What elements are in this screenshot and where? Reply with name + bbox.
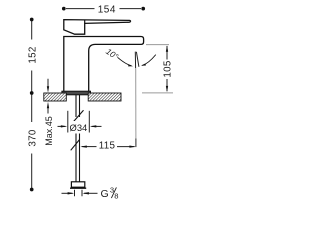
- dimension G3/8 (thread): [62, 190, 98, 197]
- svg-text:Max.45: Max.45: [44, 116, 54, 146]
- dark corner segment at 115 dimension: [135, 139, 137, 148]
- dimension O34 (body diameter): [58, 111, 102, 133]
- countertop right slab (hatched): [88, 93, 121, 101]
- svg-text:115: 115: [99, 141, 116, 152]
- handle rear edge: [84, 20, 86, 24]
- nut lip: [70, 187, 86, 189]
- dimension 115 (spout reach): [82, 146, 135, 148]
- dimension 105 (spout height): [166, 46, 168, 91]
- dimension 154 (top width): [66, 8, 141, 10]
- hose nut: [71, 182, 84, 187]
- angle arc right with arrowhead: [142, 55, 156, 66]
- gray extension line: spout bottom: [146, 44, 169, 46]
- svg-text:8: 8: [114, 192, 118, 200]
- break slash upper: [73, 110, 84, 122]
- svg-text:152: 152: [27, 46, 38, 63]
- break slash lower: [71, 140, 80, 151]
- dimension Max.45 (deck thickness): [47, 79, 49, 114]
- svg-text:10°: 10°: [104, 46, 121, 62]
- dimension 152 (height above deck): [31, 21, 33, 92]
- svg-text:G: G: [101, 188, 109, 200]
- faucet spout and body outline: [64, 37, 144, 92]
- svg-text:370: 370: [27, 129, 38, 146]
- supply tube lines: [76, 95, 80, 182]
- faucet handle lever: [64, 20, 131, 35]
- gray extension line: deck top: [142, 92, 173, 94]
- svg-text:154: 154: [98, 4, 116, 15]
- angle arc left with arrowhead: [118, 57, 132, 66]
- water stream tilted line (10 deg): [136, 52, 139, 67]
- dimension 370 (length below deck): [31, 95, 33, 189]
- svg-text:Ø34: Ø34: [70, 122, 88, 133]
- svg-text:105: 105: [163, 60, 174, 77]
- water stream reference line: [134, 52, 136, 68]
- base flange: [62, 91, 91, 95]
- gray extension line: stream vertical: [135, 68, 137, 146]
- countertop left slab (hatched): [44, 93, 67, 101]
